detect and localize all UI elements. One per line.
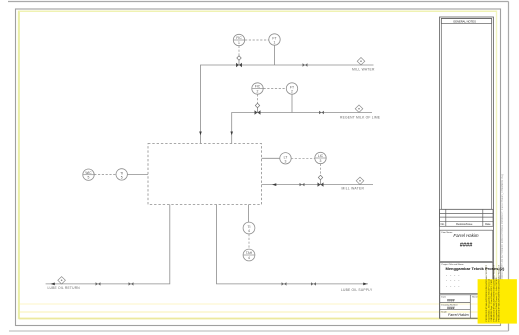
flow arrow on mill water drop [199,132,202,136]
connector diamond milk of lime [355,105,363,112]
pipe: mill water lower line [262,184,374,186]
svg-text:1: 1 [274,41,276,45]
svg-text:2: 2 [291,90,293,94]
svg-text:5: 5 [121,175,123,179]
flow arrow on lube oil return [51,283,55,286]
svg-text:Sheet: Sheet [472,296,478,299]
connector diamond lower mill water [356,177,364,184]
svg-text:GENERAL NOTES: GENERAL NOTES [453,19,476,23]
svg-text:REGENT MILK OF LIME: REGENT MILK OF LIME [340,116,381,120]
pipe: reagent milk of lime line [232,113,372,144]
svg-text:####: #### [447,298,455,302]
svg-text:3: 3 [320,159,322,163]
gate valve 1 on lube supply [282,282,287,285]
svg-text:LUBE OIL SUPPLY: LUBE OIL SUPPLY [341,288,373,292]
gate valve on mill water top [303,63,308,66]
pipe: lube oil supply line [217,205,369,284]
control valve CV3 [318,175,324,187]
pipe: mill water top line [201,65,374,144]
wire: WT5 to vessel [127,173,148,175]
general notes header [441,19,491,24]
general notes box [441,19,491,210]
svg-text:FIC: FIC [236,36,242,40]
flow arrow into vessel on lower mill water [272,183,276,186]
svg-text:Date: Date [441,296,446,299]
gate valve on milk of lime [319,111,324,114]
project title box [440,262,505,293]
vessel (dashed box) [148,144,262,205]
wire: FT1 tap [274,45,276,65]
svg-text:Scale: Scale [441,312,447,314]
paper right edge [508,2,510,332]
instrument WT5 [116,169,127,180]
firm name box [440,230,493,261]
svg-text:PRODUCED BY AN AUTODESK EDUCAT: PRODUCED BY AN AUTODESK EDUCATIONAL PROD… [501,173,504,282]
yellow note [478,264,517,323]
control valve CV2 [255,103,261,115]
signal: FIC2 to valve 2 [257,94,259,103]
svg-text:Firm Name: Firm Name [442,231,454,234]
flow arrow on milk of lime drop [230,132,233,136]
svg-text:- - - -: - - - - [446,284,460,288]
instrument FIC1 [233,34,244,45]
instrument FT1 [269,34,280,45]
svg-text:MILL WATER: MILL WATER [342,187,365,191]
svg-text:####: #### [447,306,455,310]
paper bottom edge [9,330,509,332]
faint yellow bands above bottom margin [20,303,497,305]
instrument LT3 [280,153,291,164]
svg-text:Date: Date [485,223,491,226]
svg-text:Farrel Hakim: Farrel Hakim [448,313,469,317]
svg-text:FIC: FIC [255,85,261,89]
svg-text:- - - -: - - - - [446,278,460,282]
svg-text:LUBE OIL RETURN: LUBE OIL RETURN [48,286,81,290]
instrument FIC2 [252,83,263,94]
gate valve 1 on lube return [96,282,101,285]
revision table [440,209,494,226]
signal: LT3 to LIC3 [291,157,315,159]
instrument WIC5 [83,169,94,180]
svg-text:No.: No. [441,223,445,226]
gate valve on lower mill water [300,183,305,186]
control valve CV1 [236,56,242,67]
instrument FT2 [286,83,297,94]
signal: TI4 to TAH4 [248,234,250,249]
svg-text:LIC: LIC [318,154,324,158]
title block outer box [440,17,494,318]
svg-text:Farrel Hakim: Farrel Hakim [453,233,478,238]
signal: LIC3 to valve 3 [320,164,322,175]
connector diamond lube return [58,277,66,284]
gate valve 2 on lube supply [311,282,316,285]
signal: FIC2 to FT2 [264,88,287,90]
svg-text:Menggambar Teknik Proses (2): Menggambar Teknik Proses (2) [446,266,506,271]
wire: FT2 tap [291,94,293,113]
gate valve 2 on lube return [129,282,134,285]
signal: FIC1 to valve 1 [238,46,240,56]
wire: TI4 tap [248,205,250,223]
signal: WIC5 to WT5 [94,174,116,176]
svg-text:TAH: TAH [246,251,253,255]
svg-text:3: 3 [285,159,287,163]
instrument TI4 [243,222,255,234]
svg-text:MILL WATER: MILL WATER [352,68,375,72]
wire: LT3 tap to vessel [262,157,281,159]
svg-text:- - - -: - - - - [446,273,460,277]
flow arrow on lube oil supply [363,283,367,286]
svg-text:5: 5 [88,176,90,180]
svg-text:####: #### [460,243,473,249]
svg-text:1: 1 [238,41,240,45]
svg-text:4: 4 [248,256,250,260]
instrument TAH4 [243,249,255,261]
paper top edge [8,1,509,3]
svg-text:Revision/Issue: Revision/Issue [456,223,473,226]
signal: FIC1 to FT1 [245,39,269,41]
svg-text:2: 2 [257,90,259,94]
svg-text:PRODUCED BY AN AUTODESK EDUCAT: PRODUCED BY AN AUTODESK EDUCATIONAL PROD… [498,264,501,321]
date/drawn/scale table [440,295,493,318]
svg-text:WIC: WIC [85,171,92,175]
instrument LIC3 [315,152,326,163]
connector diamond mill water top [357,58,365,65]
pipe: lube oil return line [46,205,170,284]
svg-text:4: 4 [248,229,250,233]
